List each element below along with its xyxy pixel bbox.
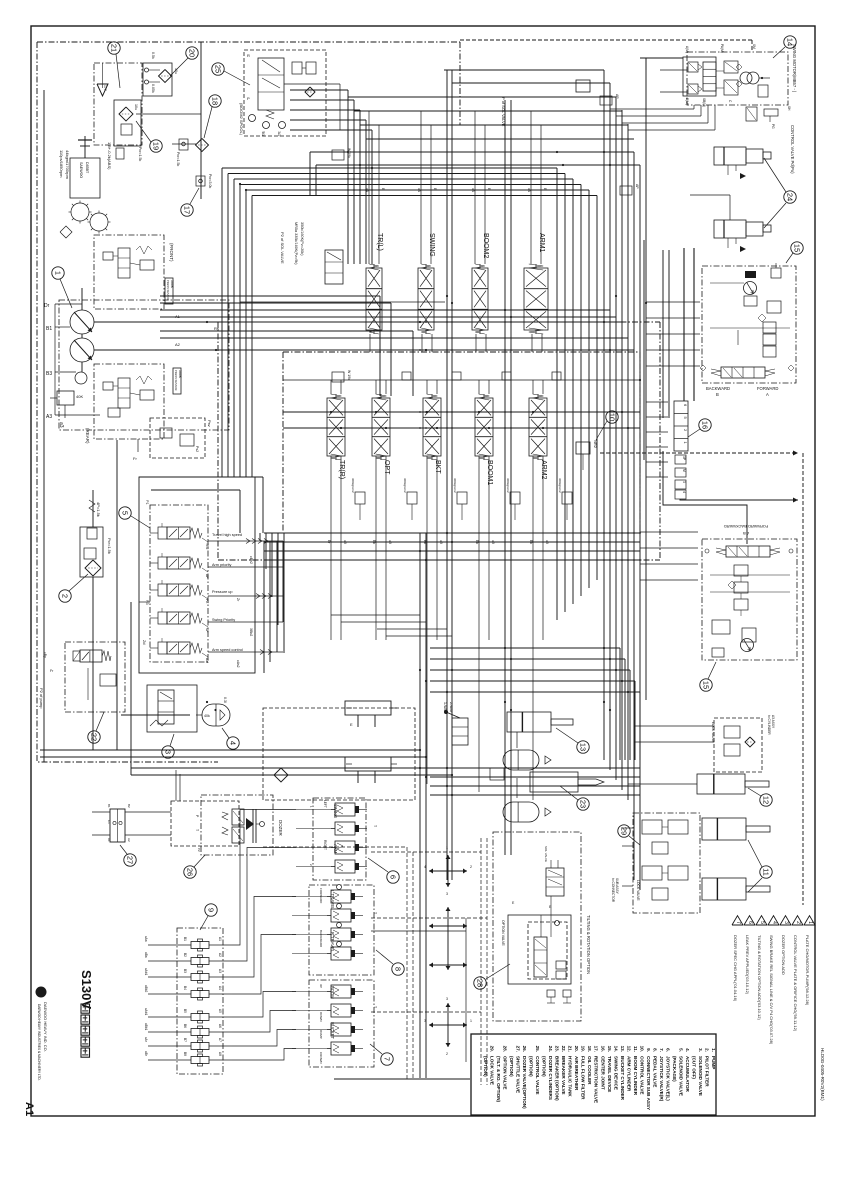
svg-text:29: 29: [620, 827, 629, 835]
svg-text:OIL COOLER: OIL COOLER: [587, 1056, 592, 1085]
svg-text:12: 12: [762, 796, 771, 804]
svg-text:AIR BREATHER: AIR BREATHER: [574, 1056, 579, 1091]
svg-text:SWING BRAKE REL SIGNAL LINE &: SWING BRAKE REL SIGNAL LINE & C/V P4 CHG…: [769, 935, 774, 1045]
svg-text:19: 19: [152, 142, 161, 150]
svg-text:13: 13: [579, 743, 588, 751]
svg-text:1.: 1.: [711, 1048, 716, 1052]
svg-text:8.: 8.: [652, 1048, 657, 1052]
svg-text:Pressure up: Pressure up: [212, 590, 232, 594]
svg-text:DUMP: DUMP: [319, 1030, 323, 1039]
svg-text:A1: A1: [218, 937, 222, 941]
svg-text:JOYSTICK VALVE(L): JOYSTICK VALVE(L): [665, 1056, 670, 1101]
svg-text:3P: 3P: [682, 456, 686, 461]
svg-text:Ps2: Ps2: [195, 446, 199, 452]
svg-text:P: P: [247, 96, 250, 101]
svg-text:25: 25: [214, 65, 223, 73]
svg-text:P2 of pump: P2 of pump: [39, 688, 44, 709]
svg-text:7: 7: [383, 1057, 392, 1061]
svg-text:4.: 4.: [685, 1048, 690, 1052]
svg-text:SOLENOID VALVE: SOLENOID VALVE: [698, 1056, 703, 1096]
svg-text:RIGHT: RIGHT: [323, 840, 327, 850]
svg-text:27: 27: [126, 856, 135, 864]
svg-text:A5: A5: [218, 1009, 222, 1013]
svg-text:Rs: Rs: [214, 326, 219, 331]
svg-text:B7: B7: [183, 1038, 187, 1042]
svg-text:10.: 10.: [639, 1046, 644, 1052]
svg-text:(OPTION): (OPTION): [509, 1056, 514, 1077]
svg-text:BOOM1: BOOM1: [486, 460, 493, 485]
svg-text:LEAK PREV APPLIED('03.10.12): LEAK PREV APPLIED('03.10.12): [745, 935, 750, 995]
svg-text:OPTION VALVE: OPTION VALVE: [501, 920, 505, 946]
svg-text:40k: 40k: [204, 714, 210, 718]
svg-text:Pcr=1.5k: Pcr=1.5k: [138, 147, 142, 161]
svg-text:SUB ASSY: SUB ASSY: [615, 878, 619, 895]
svg-text:BUCKET: BUCKET: [330, 1022, 335, 1039]
svg-text:xAa: xAa: [144, 936, 148, 942]
svg-text:3: 3: [783, 921, 789, 924]
svg-text:ARM2: ARM2: [540, 460, 547, 480]
svg-text:TILTING & ROTATION OPTION: TILTING & ROTATION OPTION: [586, 915, 591, 974]
svg-text:A1: A1: [107, 838, 111, 842]
svg-text:21.: 21.: [568, 1046, 573, 1052]
svg-text:M: M: [682, 469, 686, 472]
svg-text:21: 21: [110, 44, 119, 52]
svg-text:OPT: OPT: [383, 460, 390, 475]
svg-text:22: 22: [90, 733, 99, 741]
svg-text:SOL VALVE: SOL VALVE: [544, 846, 548, 862]
svg-text:A7: A7: [218, 1038, 222, 1042]
svg-text:Psv: Psv: [207, 420, 212, 427]
svg-text:to CONNECTOR: to CONNECTOR: [611, 878, 615, 903]
svg-text:PILOT FILTER: PILOT FILTER: [704, 1056, 709, 1087]
svg-text:BACKWARD: BACKWARD: [319, 930, 323, 948]
svg-text:B1: B1: [46, 326, 52, 332]
svg-text:3: 3: [424, 1019, 426, 1023]
svg-text:DOZER VALVE(OPTION): DOZER VALVE(OPTION): [522, 1056, 527, 1109]
svg-text:(BOOM2 SPOOL): (BOOM2 SPOOL): [239, 103, 244, 136]
svg-text:xBtr2: xBtr2: [249, 556, 253, 564]
svg-text:10u: 10u: [174, 68, 178, 74]
svg-text:B2: B2: [183, 953, 187, 957]
svg-text:2.: 2.: [704, 1048, 709, 1052]
svg-text:4: 4: [229, 741, 238, 745]
svg-text:A: A: [766, 392, 769, 397]
svg-text:PUMP: PUMP: [711, 1056, 716, 1069]
svg-text:16: 16: [701, 421, 710, 429]
svg-text:2: 2: [470, 865, 472, 869]
svg-text:0.5k: 0.5k: [151, 52, 155, 59]
svg-text:SAEWOO: SAEWOO: [79, 162, 83, 178]
svg-text:ARM CYLINDER: ARM CYLINDER: [626, 1056, 631, 1092]
svg-text:xAs2: xAs2: [236, 660, 240, 668]
svg-text:B8: B8: [183, 1052, 187, 1056]
svg-text:12.: 12.: [626, 1046, 631, 1052]
svg-text:XBb2: XBb2: [249, 628, 253, 636]
svg-text:16.: 16.: [600, 1046, 605, 1052]
svg-text:SH: SH: [787, 106, 791, 111]
svg-text:CONTROL VALVE PLATE & ORIFICE: CONTROL VALVE PLATE & ORIFICE CHG('99.11…: [793, 935, 798, 1032]
svg-text:18: 18: [211, 97, 220, 105]
svg-text:BKT: BKT: [434, 460, 441, 474]
svg-text:1: 1: [54, 271, 63, 275]
svg-text:A3 ASSY: A3 ASSY: [771, 715, 775, 729]
svg-text:Swing Priority: Swing Priority: [212, 618, 235, 622]
svg-text:44kgm/1700rpm: 44kgm/1700rpm: [65, 150, 70, 180]
svg-text:PRESS SENSOR: PRESS SENSOR: [174, 370, 178, 391]
svg-text:11: 11: [762, 868, 771, 876]
svg-text:LOCK VALVE: LOCK VALVE: [711, 722, 715, 743]
svg-text:29.: 29.: [490, 1046, 495, 1052]
svg-text:UP: UP: [319, 984, 323, 988]
svg-text:P of SOL VALVE: P of SOL VALVE: [501, 97, 506, 127]
svg-text:110ps/1850rpm: 110ps/1850rpm: [59, 150, 64, 178]
svg-text:DOZER OPTION ADD: DOZER OPTION ADD: [781, 935, 786, 975]
svg-text:(OPTION): (OPTION): [529, 1056, 534, 1077]
svg-text:R.TRAVEL: R.TRAVEL: [330, 932, 335, 953]
svg-text:DOZER: DOZER: [278, 820, 283, 837]
svg-text:TILTING & ROTATION OPTION ADD(: TILTING & ROTATION OPTION ADD('03.10.12): [757, 935, 762, 1020]
svg-text:3.: 3.: [698, 1048, 703, 1052]
svg-text:B: B: [716, 392, 719, 397]
svg-text:HLD0G-0405-R0V2(BM1): HLD0G-0405-R0V2(BM1): [820, 1048, 825, 1101]
svg-text:SWING: SWING: [333, 804, 338, 818]
svg-text:CONTROL VALVE Pd(Pu): CONTROL VALVE Pd(Pu): [790, 125, 795, 174]
svg-text:24: 24: [786, 193, 795, 201]
svg-text:Fr: Fr: [133, 456, 137, 461]
svg-text:2: 2: [61, 594, 70, 598]
svg-text:JOYSTICK VALVE(R): JOYSTICK VALVE(R): [659, 1056, 664, 1102]
svg-text:PRESS SENSOR: PRESS SENSOR: [166, 280, 170, 301]
svg-text:xAb1: xAb1: [144, 1008, 148, 1015]
svg-text:CROWD: CROWD: [319, 1052, 323, 1064]
svg-text:7.: 7.: [659, 1048, 664, 1052]
svg-text:OPTION VALVE: OPTION VALVE: [503, 1056, 508, 1090]
svg-text:xBb1: xBb1: [144, 1023, 148, 1030]
svg-text:10: 10: [608, 413, 617, 421]
svg-text:ARM1: ARM1: [538, 233, 545, 253]
svg-text:5: 5: [759, 921, 765, 924]
svg-text:Pcr=3.0k: Pcr=3.0k: [208, 174, 212, 188]
svg-text:CONNECTOR SUB ASSY: CONNECTOR SUB ASSY: [646, 1056, 651, 1110]
svg-text:A2: A2: [175, 342, 181, 347]
svg-text:8: 8: [394, 967, 403, 971]
svg-text:BOOM: BOOM: [330, 986, 335, 999]
svg-text:B3: B3: [183, 969, 187, 973]
svg-text:15: 15: [702, 681, 711, 689]
svg-text:R: R: [247, 53, 250, 58]
svg-text:19.: 19.: [581, 1046, 586, 1052]
svg-text:SOLENOID VALVE: SOLENOID VALVE: [678, 1056, 683, 1096]
svg-text:'A1': 'A1': [277, 131, 281, 137]
svg-text:1: 1: [446, 846, 448, 850]
svg-text:P2: P2: [197, 848, 201, 852]
svg-text:1: 1: [470, 1019, 472, 1023]
svg-text:5: 5: [121, 511, 130, 515]
svg-text:23: 23: [579, 800, 588, 808]
svg-text:T: T: [373, 912, 377, 914]
svg-text:AP: AP: [205, 574, 209, 579]
svg-text:300kg/cm2: 300kg/cm2: [403, 478, 407, 493]
svg-text:P3: P3: [145, 600, 149, 605]
svg-text:17.: 17.: [594, 1046, 599, 1052]
svg-text:DAEWOO HEAVY INDUSTRIES & MACH: DAEWOO HEAVY INDUSTRIES & MACHINERY LTD.: [37, 1004, 41, 1081]
svg-text:CENTER JOINT: CENTER JOINT: [600, 1056, 605, 1090]
svg-text:SWING: SWING: [428, 233, 435, 257]
svg-text:9.: 9.: [646, 1048, 651, 1052]
svg-text:SM: SM: [752, 44, 756, 49]
svg-text:300kg/cm2: 300kg/cm2: [351, 478, 355, 493]
svg-text:AP: AP: [635, 184, 639, 189]
svg-text:(FRONT): (FRONT): [169, 243, 174, 262]
svg-text:T: T: [373, 825, 377, 827]
svg-text:9: 9: [207, 908, 216, 912]
svg-text:Arm speed control: Arm speed control: [212, 648, 243, 652]
svg-text:A6: A6: [218, 1024, 222, 1028]
svg-text:FULL FLOW FILTER: FULL FLOW FILTER: [581, 1056, 586, 1100]
svg-text:A3: A3: [46, 414, 52, 420]
svg-text:FORWARD: FORWARD: [757, 386, 778, 391]
svg-text:23.: 23.: [555, 1046, 560, 1052]
svg-text:40K: 40K: [76, 394, 83, 399]
svg-text:4P=1.5k: 4P=1.5k: [96, 502, 101, 517]
svg-text:3: 3: [682, 481, 686, 483]
svg-text:E: E: [350, 722, 353, 727]
svg-text:T: T: [195, 829, 199, 831]
svg-text:SB(M): SB(M): [702, 98, 706, 107]
svg-text:13.: 13.: [620, 1046, 625, 1052]
svg-text:BOOM CYLINDER: BOOM CYLINDER: [633, 1056, 638, 1096]
svg-text:18.: 18.: [587, 1046, 592, 1052]
svg-text:500K: 500K: [170, 280, 174, 289]
svg-text:500K: 500K: [178, 370, 182, 379]
svg-text:PZ: PZ: [205, 599, 209, 603]
svg-text:Pcr=1.5k: Pcr=1.5k: [107, 538, 112, 554]
svg-text:3: 3: [446, 892, 448, 896]
svg-text:AM: AM: [205, 658, 209, 663]
svg-text:Arm priority: Arm priority: [212, 563, 232, 567]
svg-text:4: 4: [424, 865, 426, 869]
svg-text:DOZER SPEC CHG APPL('01.04.16): DOZER SPEC CHG APPL('01.04.16): [733, 935, 738, 1002]
svg-text:B1: B1: [183, 937, 187, 941]
svg-text:3: 3: [164, 750, 173, 754]
svg-text:TR(L): TR(L): [376, 233, 383, 251]
svg-text:2: 2: [446, 1052, 448, 1056]
svg-text:P1: P1: [145, 500, 149, 505]
svg-text:1.8+-0.2k(ABS): 1.8+-0.2k(ABS): [107, 142, 112, 170]
svg-text:3: 3: [446, 997, 448, 1001]
svg-text:Zd: Zd: [142, 640, 146, 644]
svg-text:7: 7: [735, 921, 741, 924]
svg-text:ARM: ARM: [333, 844, 338, 854]
svg-text:177: 177: [103, 85, 107, 91]
svg-text:FORWARD: FORWARD: [319, 888, 323, 904]
svg-text:27.: 27.: [516, 1046, 521, 1052]
svg-text:A1: A1: [175, 314, 181, 319]
svg-text:BREAKER (OPTION): BREAKER (OPTION): [555, 1056, 560, 1101]
svg-text:B3: B3: [46, 371, 52, 377]
svg-text:BOOM2: BOOM2: [482, 233, 489, 258]
svg-text:CONTROL VALVE: CONTROL VALVE: [639, 1056, 644, 1095]
svg-text:6: 6: [747, 921, 753, 924]
svg-text:SWING MOTOR(MB57 - ): SWING MOTOR(MB57 - ): [792, 44, 797, 93]
svg-text:A2: A2: [218, 953, 222, 957]
svg-text:A1: A1: [23, 1102, 35, 1116]
svg-text:(TILT. & RO. OPTION): (TILT. & RO. OPTION): [496, 1056, 501, 1103]
svg-text:BACKWARD: BACKWARD: [706, 386, 730, 391]
svg-text:RESTRICTION VALVE: RESTRICTION VALVE: [594, 1056, 599, 1103]
svg-text:DOWN: DOWN: [319, 1012, 323, 1022]
svg-text:PLATE CHG/MOTOR-PUMP('98.12.28: PLATE CHG/MOTOR-PUMP('98.12.28): [805, 935, 810, 1006]
svg-text:A(M): A(M): [685, 46, 689, 53]
svg-text:6.: 6.: [665, 1048, 670, 1052]
svg-text:'B1': 'B1': [261, 131, 265, 137]
svg-text:6: 6: [389, 875, 398, 879]
svg-text:350k/160K(Pz=20k): 350k/160K(Pz=20k): [300, 222, 304, 256]
svg-text:BUCKET CYLINDER: BUCKET CYLINDER: [620, 1056, 625, 1101]
svg-text:MR5a 335k/160K(Pz=9k): MR5a 335k/160K(Pz=9k): [294, 222, 298, 265]
svg-text:L.TRAVEL: L.TRAVEL: [330, 890, 335, 910]
svg-text:CONTROL VALVE: CONTROL VALVE: [535, 1056, 540, 1095]
svg-text:B2: B2: [127, 804, 131, 808]
svg-text:TRAVEL DEVICE: TRAVEL DEVICE: [607, 1056, 612, 1092]
svg-text:D85BT: D85BT: [85, 162, 89, 174]
svg-text:5.: 5.: [678, 1048, 683, 1052]
svg-text:20.: 20.: [574, 1046, 579, 1052]
svg-text:LOCK VALVE: LOCK VALVE: [490, 1056, 495, 1085]
svg-text:to CYLINDER: to CYLINDER: [767, 715, 771, 735]
svg-text:Travel high speed: Travel high speed: [212, 533, 242, 537]
svg-text:A3: A3: [218, 969, 222, 973]
svg-text:B6: B6: [183, 1024, 187, 1028]
svg-text:15.: 15.: [607, 1046, 612, 1052]
svg-text:26.: 26.: [522, 1046, 527, 1052]
svg-text:A8: A8: [218, 1052, 222, 1056]
svg-text:0.3l: 0.3l: [223, 697, 227, 703]
svg-text:FORWARD BACKWARD: FORWARD BACKWARD: [724, 524, 769, 529]
svg-text:14.: 14.: [613, 1046, 618, 1052]
svg-text:B5: B5: [183, 1009, 187, 1013]
svg-text:PEDAL VALVE: PEDAL VALVE: [652, 1056, 657, 1087]
svg-text:0.05k: 0.05k: [151, 84, 155, 93]
svg-text:4: 4: [771, 921, 777, 924]
svg-text:TR(R): TR(R): [338, 460, 345, 479]
svg-text:(CUT OFF): (CUT OFF): [691, 1056, 696, 1079]
svg-text:300kg/cm2: 300kg/cm2: [506, 478, 510, 493]
svg-text:DOZER CYLINDERS: DOZER CYLINDERS: [548, 1056, 553, 1100]
svg-text:(OPTION): (OPTION): [542, 1056, 547, 1077]
svg-text:C1: C1: [107, 820, 111, 824]
svg-text:(PACKAGE): (PACKAGE): [672, 1056, 677, 1082]
svg-text:300kg/cm2: 300kg/cm2: [558, 478, 562, 493]
svg-text:W 19k: W 19k: [347, 370, 351, 380]
svg-text:xBa: xBa: [144, 952, 148, 958]
svg-text:LEFT: LEFT: [323, 800, 327, 808]
svg-text:28.: 28.: [503, 1046, 508, 1052]
svg-text:A2: A2: [127, 838, 131, 842]
svg-text:10u: 10u: [134, 104, 138, 110]
svg-text:17: 17: [183, 206, 192, 214]
svg-text:SWING DEVICE: SWING DEVICE: [613, 1056, 618, 1090]
svg-text:DAEWOO HEAVY IND. CO.: DAEWOO HEAVY IND. CO.: [43, 1002, 48, 1052]
svg-text:PG: PG: [771, 124, 775, 129]
svg-text:15: 15: [793, 244, 802, 252]
svg-text:xBb2: xBb2: [144, 985, 148, 992]
svg-text:(REAR): (REAR): [85, 428, 90, 444]
svg-text:HYDRAULIC TANK: HYDRAULIC TANK: [568, 1056, 573, 1097]
svg-text:BREAKER VALVE: BREAKER VALVE: [561, 1056, 566, 1095]
svg-text:1: 1: [807, 921, 813, 924]
svg-text:300kg/cm2: 300kg/cm2: [453, 478, 457, 493]
svg-text:Pcr=1.5k: Pcr=1.5k: [176, 152, 180, 166]
svg-text:xBp: xBp: [43, 652, 47, 658]
svg-text:22.: 22.: [561, 1046, 566, 1052]
svg-text:LOCK VALVE: LOCK VALVE: [636, 880, 640, 901]
svg-text:B(M): B(M): [685, 98, 689, 105]
svg-text:P2 of SOL VALVE: P2 of SOL VALVE: [280, 232, 285, 264]
svg-text:28: 28: [476, 979, 485, 987]
svg-text:ACCUMULATOR: ACCUMULATOR: [685, 1056, 690, 1092]
svg-text:(OPTION): (OPTION): [483, 1056, 488, 1077]
svg-text:Dr: Dr: [44, 303, 50, 309]
svg-text:26: 26: [186, 868, 195, 876]
svg-text:11.: 11.: [633, 1046, 638, 1052]
svg-text:xAb1: xAb1: [144, 968, 148, 975]
svg-text:SHUTTLE VALVE: SHUTTLE VALVE: [516, 1056, 521, 1093]
svg-text:A B: A B: [743, 531, 750, 536]
svg-text:B1: B1: [107, 804, 111, 808]
svg-text:20: 20: [188, 49, 197, 57]
svg-text:2: 2: [795, 921, 801, 924]
svg-text:SP: SP: [205, 628, 209, 633]
svg-text:PA(M): PA(M): [720, 44, 724, 53]
svg-text:2-WAY: 2-WAY: [449, 702, 453, 714]
svg-text:4: 4: [682, 491, 686, 493]
svg-text:TR2: TR2: [205, 543, 209, 550]
svg-text:A4: A4: [218, 986, 222, 990]
svg-text:B4: B4: [183, 986, 187, 990]
svg-text:24.: 24.: [548, 1046, 553, 1052]
svg-text:25.: 25.: [535, 1046, 540, 1052]
